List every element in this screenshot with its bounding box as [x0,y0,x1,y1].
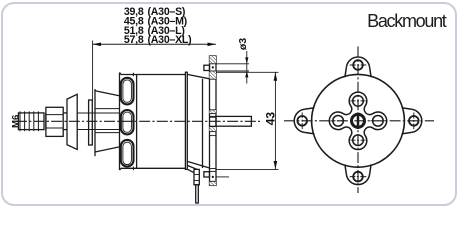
bell bottom edge [120,168,186,170]
43 dimension [216,72,279,169]
cross hole S [353,135,364,146]
housing top slant [187,74,209,78]
svg-text:43: 43 [264,112,278,126]
dia3 dimension [216,51,249,84]
nut / collet [46,107,63,136]
title Backmount [367,11,445,32]
threaded shaft [18,113,44,130]
cross hole E [373,116,384,127]
cross hole W [333,116,344,127]
ear N [345,57,371,77]
shaft step [45,113,47,130]
bell top edge [120,73,186,75]
front vertical centerline [357,47,359,194]
cross hole N [353,96,364,107]
flange hatch blocks [210,56,217,185]
hub boss lines [95,108,120,110]
svg-text:57,8: 57,8 [124,34,144,46]
top dim line [93,43,216,45]
stem [63,112,67,114]
housing bottom slant [187,161,209,168]
centerline main (dash-dot) [16,120,260,122]
shaft segment [77,112,120,114]
flange divisions [210,64,230,182]
extension line (top dim) [92,41,94,101]
ear E [402,108,422,134]
rear shaft stub [216,116,251,126]
washer [89,100,93,145]
vent V2 [121,110,134,134]
flange bar [210,56,217,185]
wire slant upper [187,165,197,169]
cross hole ticks [351,100,366,102]
vent V3 [121,140,134,167]
housing front edge [202,79,204,168]
flange boss top [204,65,210,70]
bell rear lip [185,72,187,169]
prop driver disc [67,94,77,149]
svg-text:ø3: ø3 [237,38,249,50]
bell front face [119,73,121,171]
cone slants [95,91,120,96]
flange hole dots [212,66,214,178]
outer circle (motor can) [312,74,405,167]
wire tail [196,185,199,203]
wire bundle [194,169,199,184]
front horizontal centerline [284,120,434,122]
cone face [94,89,96,156]
backmount cross outline [329,92,386,149]
center ring [352,114,365,127]
dim text block [124,6,192,46]
M6 label [10,115,21,128]
ear W [294,108,314,134]
vent band separator [136,75,138,169]
thread ticks [20,111,38,131]
flange boss bottom [204,172,210,177]
svg-text:(A30–XL): (A30–XL) [148,34,192,46]
ear S [345,164,371,184]
center slot [357,113,360,129]
vent V1 [121,78,134,105]
wire slant lower [187,169,194,173]
